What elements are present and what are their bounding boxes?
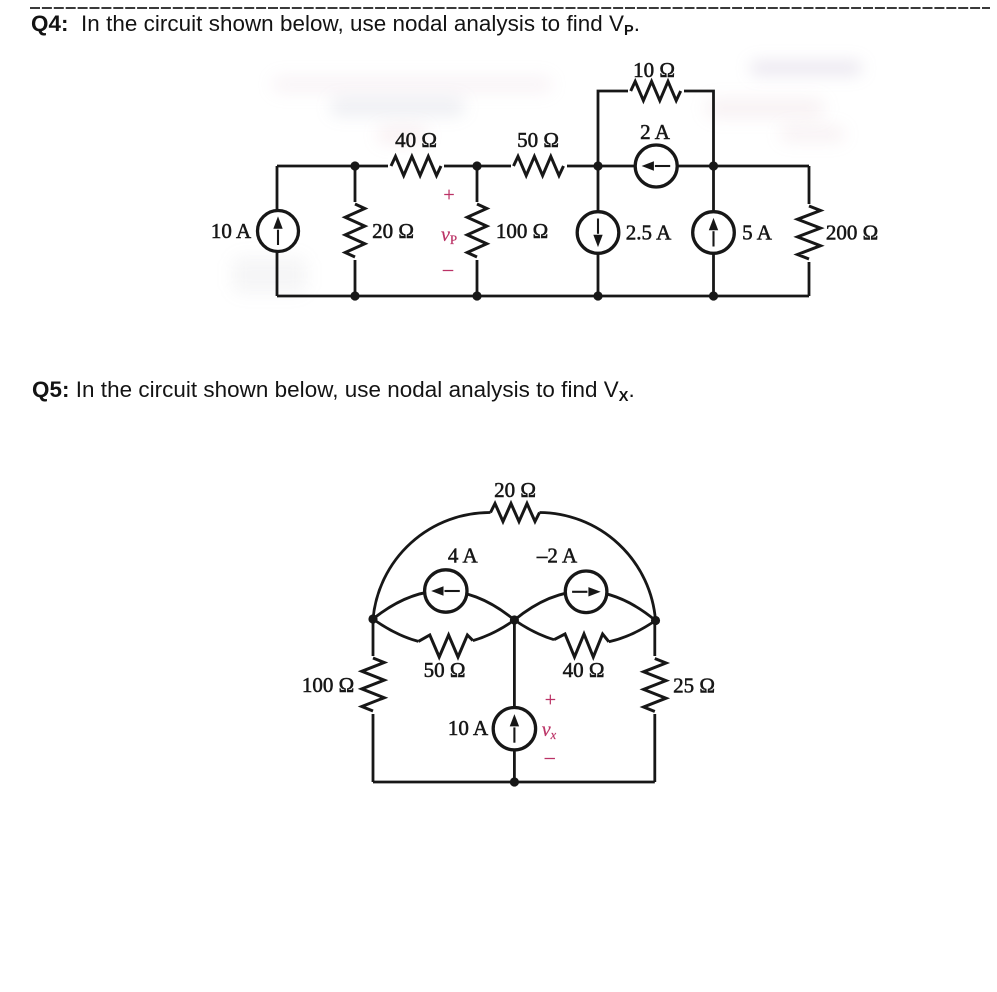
svg-text:4 A: 4 A: [448, 544, 479, 568]
wire Q4 bottom rail: [277, 295, 809, 298]
svg-text:40 Ω: 40 Ω: [395, 128, 437, 152]
wire Q5 right lens lower arc: [514, 620, 655, 642]
svg-text:+: +: [545, 689, 556, 711]
title Q5: [32, 377, 635, 403]
svg-text:–2 A: –2 A: [536, 544, 578, 568]
wire Q4 200-ohm branch: [808, 166, 811, 296]
current source 4 A (Q5): [425, 544, 479, 613]
svg-text:vP: vP: [441, 224, 457, 247]
resistor 20 ohm (Q5): [491, 478, 540, 522]
svg-text:100 Ω: 100 Ω: [496, 219, 548, 243]
svg-text:–: –: [544, 746, 556, 768]
wire Q4 100-ohm branch: [476, 166, 479, 296]
resistor 100 ohm (Q5): [302, 656, 384, 714]
resistor 10 ohm (Q4): [628, 58, 684, 102]
resistor 50 ohm (Q4): [511, 128, 567, 177]
current source 5 A (Q4): [693, 212, 773, 254]
svg-text:20 Ω: 20 Ω: [372, 219, 414, 243]
current source 2.5 A (Q4): [577, 212, 672, 254]
svg-text:40 Ω: 40 Ω: [563, 658, 605, 682]
resistor 40 ohm (Q5): [554, 634, 609, 682]
top dashed separator: [0, 0, 997, 18]
svg-text:–: –: [442, 258, 454, 280]
wire Q5 dome right arc: [540, 513, 656, 621]
wire Q5 center branch: [513, 620, 516, 782]
svg-text:20 Ω: 20 Ω: [494, 478, 536, 502]
svg-text:200 Ω: 200 Ω: [826, 221, 878, 245]
current source 10 A (Q4): [211, 211, 299, 252]
current source 10 A (Q5): [448, 708, 536, 750]
svg-text:50 Ω: 50 Ω: [424, 658, 466, 682]
wire Q5 right branch: [653, 621, 656, 783]
svg-text:25 Ω: 25 Ω: [673, 674, 715, 698]
wire Q5 dome left arc: [373, 512, 491, 619]
svg-text:10 Ω: 10 Ω: [633, 58, 675, 82]
faint scan smudges: [272, 76, 552, 93]
svg-text:50 Ω: 50 Ω: [517, 128, 559, 152]
svg-text:5 A: 5 A: [742, 221, 773, 245]
voltage label vx (Q5): [542, 689, 557, 768]
svg-text:10 A: 10 A: [448, 716, 489, 740]
resistor 50 ohm (Q5): [418, 635, 473, 682]
voltage label vP (Q4): [441, 184, 457, 280]
resistor 100 ohm (Q4): [466, 202, 548, 260]
svg-text:2 A: 2 A: [640, 120, 671, 144]
wire Q5 left branch: [372, 619, 375, 782]
wire Q4 10-ohm upper loop: [598, 91, 714, 166]
resistor 20 ohm (Q4): [344, 202, 414, 260]
node dots Q5: [368, 614, 660, 786]
title Q4: [31, 11, 640, 37]
resistor 200 ohm (Q4): [798, 204, 879, 262]
wire Q4 5A branch: [712, 166, 715, 296]
node dots Q4: [350, 161, 718, 300]
resistor 40 ohm (Q4): [388, 128, 444, 177]
wire Q4 top rail: [277, 165, 809, 168]
wire Q5 bottom rail: [373, 781, 655, 784]
current source -2 A (Q5): [536, 544, 607, 613]
wire Q5 left lens upper arc: [373, 591, 514, 620]
wire Q4 2.5A branch: [597, 166, 600, 296]
wire Q4 20-ohm branch: [354, 166, 357, 296]
wire Q5 right lens upper arc: [514, 591, 655, 620]
current source 2 A (Q4): [635, 120, 677, 187]
wire Q5 left lens lower arc: [373, 619, 514, 641]
svg-text:+: +: [443, 184, 454, 206]
wire Q4 left branch: [276, 166, 279, 296]
svg-text:10 A: 10 A: [211, 219, 252, 243]
svg-text:100 Ω: 100 Ω: [302, 673, 354, 697]
svg-text:vx: vx: [542, 719, 557, 742]
resistor 25 ohm (Q5): [644, 656, 715, 714]
svg-text:2.5 A: 2.5 A: [626, 221, 672, 245]
